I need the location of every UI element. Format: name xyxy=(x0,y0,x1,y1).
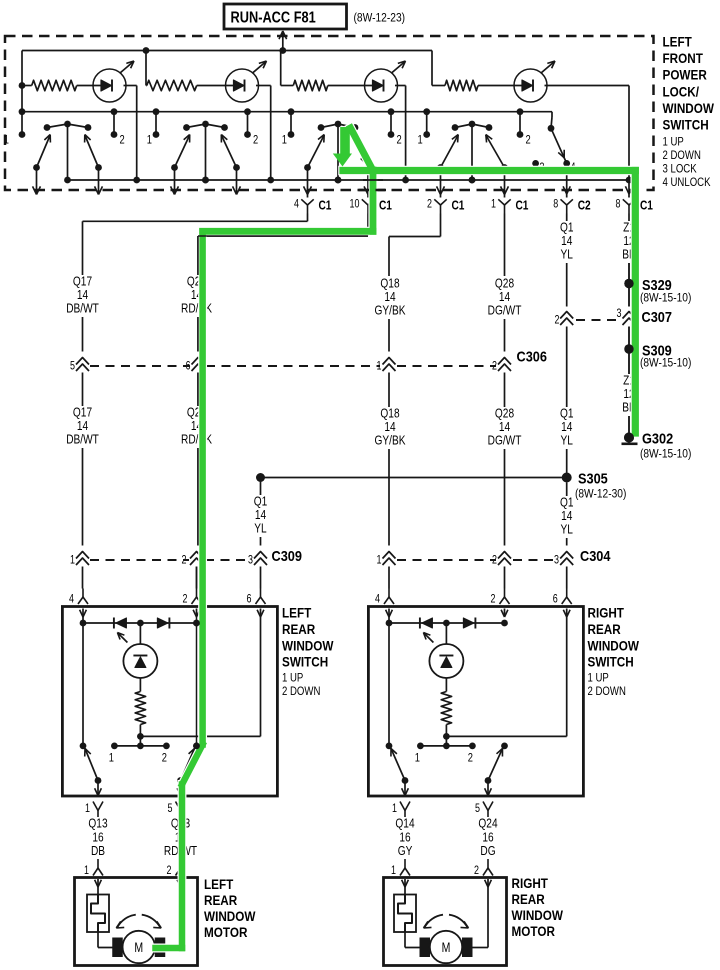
left motor M xyxy=(123,931,155,963)
svg-text:S305: S305 xyxy=(578,469,608,486)
connector C309 pin 3 xyxy=(248,552,267,567)
wire from F81 fuse with up arrow xyxy=(279,31,287,51)
switch unit 2 pin 2 stub xyxy=(244,108,251,138)
svg-text:1 UP: 1 UP xyxy=(663,136,684,149)
wire Q17 from C1 pin 4 xyxy=(83,214,308,276)
feed bus wire lower xyxy=(22,111,552,113)
svg-text:1: 1 xyxy=(491,199,496,211)
left switch lamp return wire xyxy=(140,617,260,736)
connector C1 pin 2 xyxy=(427,198,465,213)
svg-text:1: 1 xyxy=(109,751,114,764)
left rear window switch box xyxy=(62,607,277,797)
connector pin 5 and wire Q23 xyxy=(164,802,197,859)
connector C2 pin 8 xyxy=(553,198,591,213)
connector C309 pin 2 xyxy=(182,552,203,567)
svg-text:DG/WT: DG/WT xyxy=(488,434,522,448)
connector C304 pin 2 xyxy=(492,552,511,567)
svg-text:Q17: Q17 xyxy=(73,275,92,289)
left switch pin 2 xyxy=(183,589,202,618)
svg-text:(8W-15-10): (8W-15-10) xyxy=(640,357,692,370)
svg-text:Q18: Q18 xyxy=(380,407,399,421)
right circuit breaker xyxy=(394,887,416,932)
wire Q28 from C1 pin 1 xyxy=(504,214,506,277)
svg-text:WINDOW: WINDOW xyxy=(204,908,256,924)
wire Q1 below C307 xyxy=(566,327,568,408)
wire lamp LED4 cathode xyxy=(545,86,630,181)
wire Q18 to C304 xyxy=(388,449,390,546)
rocker switch 3 common bar xyxy=(318,121,359,131)
svg-text:2: 2 xyxy=(120,133,125,146)
left diode left xyxy=(114,618,127,629)
svg-text:14: 14 xyxy=(561,509,573,523)
switch unit 2 right output wire xyxy=(233,168,241,195)
svg-text:LEFT: LEFT xyxy=(204,876,233,892)
svg-text:6: 6 xyxy=(247,594,252,606)
wire Q27 below C306 xyxy=(197,373,199,407)
left switch contact bar xyxy=(109,736,170,764)
svg-text:SWITCH: SWITCH xyxy=(282,654,328,670)
wire Q1 right branch label xyxy=(560,483,574,538)
svg-text:REAR: REAR xyxy=(588,621,621,637)
green highlighted circuit path xyxy=(156,128,636,948)
left switch right arm xyxy=(177,749,194,784)
svg-text:SWITCH: SWITCH xyxy=(588,654,634,670)
left motor pin 2 xyxy=(167,859,186,887)
svg-text:1: 1 xyxy=(415,751,420,764)
svg-text:2: 2 xyxy=(474,865,479,877)
svg-text:YL: YL xyxy=(561,523,574,537)
right switch contact bar xyxy=(415,736,476,764)
feed bus wire top xyxy=(22,50,432,52)
svg-text:C1: C1 xyxy=(516,198,529,212)
svg-text:1: 1 xyxy=(377,361,382,373)
right motor title xyxy=(512,875,564,939)
svg-text:4 UNLOCK: 4 UNLOCK xyxy=(663,176,712,189)
right diode right xyxy=(463,618,475,629)
svg-text:REAR: REAR xyxy=(512,891,545,907)
connector C307 dashed line xyxy=(576,308,672,325)
svg-text:1: 1 xyxy=(4,133,9,146)
svg-text:5: 5 xyxy=(475,803,480,815)
svg-text:14: 14 xyxy=(384,290,396,304)
connector C307 pin 3 xyxy=(617,308,636,325)
svg-text:2: 2 xyxy=(555,315,560,327)
rocker switch 2 right contact arm xyxy=(221,135,240,171)
rocker switch 2 common bar xyxy=(183,121,228,131)
svg-text:1 UP: 1 UP xyxy=(282,672,303,685)
right switch lamp resistor xyxy=(441,678,451,740)
svg-text:Q28: Q28 xyxy=(495,277,514,291)
switch unit 1 left output wire xyxy=(33,168,41,195)
switch unit 3 pin 1 label xyxy=(282,133,287,146)
wire resistor R2 to lamp xyxy=(197,85,242,87)
connector C306 dashed line xyxy=(90,347,547,366)
right motor feed wire right xyxy=(473,887,489,948)
svg-text:C309: C309 xyxy=(272,547,303,564)
wire lamp LED3 cathode xyxy=(395,86,406,181)
svg-text:14: 14 xyxy=(384,420,396,434)
svg-text:14: 14 xyxy=(561,234,573,248)
wire label Q1 upper xyxy=(560,221,574,262)
wire Q1 to S305 xyxy=(566,449,568,478)
switch unit 3 right output wire xyxy=(364,168,372,198)
svg-text:RUN-ACC F81: RUN-ACC F81 xyxy=(231,9,316,27)
svg-text:14: 14 xyxy=(499,290,511,304)
lamp return output wire xyxy=(625,180,632,198)
lock/unlock switch common xyxy=(548,112,555,132)
connector C1 pin 4 xyxy=(294,198,332,213)
svg-text:2: 2 xyxy=(491,594,496,606)
left motor title xyxy=(204,876,256,940)
svg-text:Q13: Q13 xyxy=(88,816,107,830)
lock contact 3 xyxy=(532,160,545,174)
svg-text:1: 1 xyxy=(417,133,422,146)
right switch lamp return wire xyxy=(446,617,566,736)
wire Q28 to C304 xyxy=(504,449,506,546)
svg-text:C1: C1 xyxy=(452,198,465,212)
switch unit 3 pin 1 stub xyxy=(288,108,295,138)
wire fragments beside highlight xyxy=(193,180,634,749)
wire feed to resistor R2 xyxy=(145,51,148,86)
svg-text:POWER: POWER xyxy=(663,67,707,83)
wire label Q17 upper xyxy=(66,275,99,316)
wire feed to resistor R3 xyxy=(281,51,294,86)
switch unit 4 pin 1 stub xyxy=(423,108,430,138)
svg-text:Q1: Q1 xyxy=(560,407,574,421)
wire Q17 to C306 xyxy=(82,317,84,352)
svg-text:C2: C2 xyxy=(578,198,591,212)
svg-text:8: 8 xyxy=(616,199,621,211)
connector pin 1 and wire Q13 xyxy=(85,802,108,859)
right switch output 1 wire xyxy=(402,781,409,797)
switch unit 4 pin 1 label xyxy=(417,133,422,146)
svg-text:3: 3 xyxy=(617,308,622,320)
left switch lamp xyxy=(117,623,157,678)
right switch internal feed wire xyxy=(386,617,393,749)
right switch right arm xyxy=(485,749,503,784)
connector C307 pin 2 xyxy=(555,312,574,327)
unlock output wire xyxy=(563,163,570,197)
wire feed to resistor R4 xyxy=(432,51,445,86)
green direction arrow xyxy=(333,127,352,167)
switch unit 1 pin 1 stub xyxy=(19,112,26,138)
svg-text:8: 8 xyxy=(553,199,558,211)
indicator lamp LED4 xyxy=(514,61,555,102)
junction node at F81 tap xyxy=(279,47,286,54)
connector pin 1 and wire Q14 xyxy=(392,802,415,859)
svg-text:WINDOW: WINDOW xyxy=(282,637,334,653)
svg-text:Q1: Q1 xyxy=(560,221,574,235)
left rotation arrows xyxy=(116,915,161,928)
wire Q1 left branch to switch pin 6 xyxy=(260,567,262,589)
svg-text:LEFT: LEFT xyxy=(282,605,311,621)
wire resistor R4 to lamp xyxy=(478,85,530,87)
wire label Q28 upper xyxy=(488,277,522,318)
svg-text:M: M xyxy=(134,940,143,956)
rocker switch 3 common wire xyxy=(335,124,342,183)
left motor feed wire right xyxy=(165,887,180,948)
switch unit 4 pin 2 stub xyxy=(517,108,524,138)
svg-text:GY/BK: GY/BK xyxy=(375,434,406,448)
right rear window switch title xyxy=(588,605,640,699)
svg-text:S329: S329 xyxy=(642,276,672,293)
svg-text:DG/WT: DG/WT xyxy=(488,304,522,318)
switch unit 2 left output wire xyxy=(171,168,179,195)
svg-text:RIGHT: RIGHT xyxy=(588,605,625,621)
wire Q18 to switch pin 4 xyxy=(388,567,390,589)
wire Q18 below C306 xyxy=(388,373,390,408)
switch unit 3 pin 2 stub xyxy=(388,108,395,138)
indicator lamp LED1 xyxy=(93,61,134,102)
wire left feed vertical xyxy=(19,51,26,116)
connector C309 dashed line xyxy=(90,547,302,564)
svg-text:5: 5 xyxy=(168,803,173,815)
wire Q1 left branch label xyxy=(254,478,268,537)
svg-text:3: 3 xyxy=(248,555,253,567)
right motor feed wire left xyxy=(405,932,430,948)
svg-text:2: 2 xyxy=(468,751,473,764)
switch unit 4 left output wire xyxy=(437,168,445,198)
svg-text:DB/WT: DB/WT xyxy=(66,302,99,316)
wire resistor R1 to lamp xyxy=(77,85,109,87)
wire Q17 to C309 xyxy=(82,448,84,546)
splice S329 xyxy=(624,276,691,305)
svg-text:LOCK/: LOCK/ xyxy=(663,83,700,99)
connector C1 pin 10 xyxy=(350,198,393,213)
wire Q1 to C307 xyxy=(566,263,568,307)
svg-text:3 LOCK: 3 LOCK xyxy=(663,163,698,176)
connector C306 pin 6 xyxy=(186,358,205,373)
wire label Q27 lower xyxy=(181,406,212,447)
wire label Z1 lower xyxy=(622,374,636,415)
rocker switch 1 common bar xyxy=(44,121,92,131)
wire Q17 to switch pin 4 xyxy=(82,567,84,589)
left switch output 5 wire xyxy=(177,781,184,797)
rocker switch 1 common wire xyxy=(64,124,71,183)
wire Q28 below C306 xyxy=(504,373,506,408)
wire label Q28 lower xyxy=(488,407,522,448)
rocker switch 4 common bar xyxy=(452,121,493,131)
svg-text:Q1: Q1 xyxy=(254,495,268,509)
wire resistor R3 to lamp xyxy=(328,85,381,87)
svg-text:1: 1 xyxy=(70,555,75,567)
rocker switch 2 left contact arm xyxy=(171,135,190,171)
right switch left arm xyxy=(391,749,408,784)
svg-text:2: 2 xyxy=(492,361,497,373)
svg-text:2: 2 xyxy=(162,751,167,764)
green highlight halo xyxy=(156,128,636,948)
svg-text:C1: C1 xyxy=(379,198,392,212)
left front switch dashed enclosure xyxy=(5,36,654,190)
wire S305 branch horizontal xyxy=(256,473,567,482)
right motor pin 1 xyxy=(391,859,410,887)
left switch internal feed wire xyxy=(80,617,87,749)
rocker switch 3 left contact arm xyxy=(304,135,324,171)
svg-text:(8W-15-10): (8W-15-10) xyxy=(640,448,692,461)
rocker switch 3 right contact arm (closed) xyxy=(352,129,371,171)
junction node res2 feed xyxy=(143,47,150,54)
wire Z1 to ground xyxy=(628,416,630,433)
wire label Q17 lower xyxy=(66,406,99,447)
svg-text:YL: YL xyxy=(254,522,267,536)
left switch arm pivot right xyxy=(193,743,200,750)
connector C306 pin 1 xyxy=(377,358,396,373)
wire Q18 from C1 pin 2 xyxy=(389,214,441,277)
ground G302 xyxy=(622,429,692,460)
resistor R3 xyxy=(293,80,328,90)
svg-text:2 DOWN: 2 DOWN xyxy=(663,149,701,162)
wire label Q1 middle xyxy=(560,407,574,448)
svg-text:DB/WT: DB/WT xyxy=(66,433,99,447)
connector C304 pin 1 xyxy=(377,552,396,567)
svg-text:YL: YL xyxy=(561,434,574,448)
svg-text:C306: C306 xyxy=(517,347,548,364)
right switch internal top wire xyxy=(389,620,508,627)
left circuit breaker xyxy=(87,887,109,932)
wire Q1 right branch to C304 xyxy=(566,538,568,546)
lock/unlock switch arm xyxy=(551,128,570,167)
svg-text:2 DOWN: 2 DOWN xyxy=(282,685,320,698)
switch unit 1 pin 1 label xyxy=(4,133,9,146)
switch unit 1 right output wire xyxy=(95,168,103,195)
connector C306 pin 5 xyxy=(70,358,89,373)
svg-text:DB: DB xyxy=(91,844,105,858)
svg-text:16: 16 xyxy=(92,830,103,844)
svg-text:3: 3 xyxy=(554,555,559,567)
splice S305 xyxy=(562,469,627,500)
svg-text:RD/BK: RD/BK xyxy=(181,302,212,316)
wire Q1 right branch to switch pin 6 xyxy=(566,567,568,589)
wire Q1 from C2 pin 8 xyxy=(566,214,568,222)
right motor box xyxy=(384,878,507,966)
svg-text:DG: DG xyxy=(480,844,495,858)
svg-text:2: 2 xyxy=(427,199,432,211)
svg-text:1: 1 xyxy=(85,803,90,815)
svg-text:C307: C307 xyxy=(642,308,673,325)
svg-text:WINDOW: WINDOW xyxy=(512,907,564,923)
svg-text:(8W-15-10): (8W-15-10) xyxy=(640,292,692,305)
left motor brushes xyxy=(112,938,165,958)
switch unit 4 right output wire xyxy=(501,168,509,198)
svg-text:C1: C1 xyxy=(640,198,653,212)
svg-text:LEFT: LEFT xyxy=(663,34,692,50)
svg-text:SWITCH: SWITCH xyxy=(663,117,709,133)
connector C304 dashed line xyxy=(397,547,611,564)
right motor M xyxy=(430,931,462,963)
svg-text:M: M xyxy=(442,940,451,956)
left switch left arm xyxy=(85,749,102,784)
svg-text:2: 2 xyxy=(167,865,172,877)
svg-text:4: 4 xyxy=(69,594,74,606)
svg-text:G302: G302 xyxy=(642,429,673,446)
resistor R2 xyxy=(147,80,197,90)
right motor pin 2 xyxy=(474,859,493,887)
svg-text:REAR: REAR xyxy=(282,621,315,637)
wire Z1 from C1 pin 8 xyxy=(628,214,630,222)
svg-text:Q17: Q17 xyxy=(73,406,92,420)
connector C1 pin 1 xyxy=(491,198,529,213)
svg-text:2: 2 xyxy=(397,133,402,146)
left motor pin 1 xyxy=(84,859,103,887)
wire label Q18 upper xyxy=(375,277,406,318)
svg-text:(8W-12-23): (8W-12-23) xyxy=(354,12,406,25)
left switch lamp resistor xyxy=(135,678,145,740)
lamp return bus wire xyxy=(68,177,633,184)
svg-text:Q1: Q1 xyxy=(560,496,574,510)
switch unit 2 pin 1 stub xyxy=(153,108,160,138)
svg-text:C1: C1 xyxy=(319,198,332,212)
connector pin 5 and wire Q24 xyxy=(475,802,498,859)
svg-text:16: 16 xyxy=(482,830,493,844)
svg-text:16: 16 xyxy=(399,830,410,844)
wire Q27 to C306 xyxy=(197,317,199,352)
svg-text:2: 2 xyxy=(183,594,188,606)
resistor R1 xyxy=(32,80,77,90)
switch unit 3 pin 2 label xyxy=(397,133,402,146)
svg-text:RD/BK: RD/BK xyxy=(181,433,212,447)
right switch pin 4 xyxy=(375,589,394,618)
svg-text:10: 10 xyxy=(350,199,360,211)
svg-text:GY/BK: GY/BK xyxy=(375,304,406,318)
svg-text:1: 1 xyxy=(84,865,89,877)
connector C304 pin 3 xyxy=(554,552,573,567)
right switch pin 6 xyxy=(553,589,572,618)
connector C1 pin 8 xyxy=(616,198,654,213)
right switch output 5 wire xyxy=(485,781,492,797)
right switch arm pivot right xyxy=(501,743,508,750)
svg-text:WINDOW: WINDOW xyxy=(663,100,715,116)
right motor brushes xyxy=(420,938,473,958)
right switch pin 2 xyxy=(491,589,510,618)
wire Q17 below C306 xyxy=(82,373,84,407)
svg-text:1: 1 xyxy=(377,555,382,567)
rocker switch 4 common wire xyxy=(469,124,476,183)
wire label Q18 lower xyxy=(375,407,406,448)
right rear window switch box xyxy=(368,607,583,797)
svg-text:1: 1 xyxy=(392,803,397,815)
wire Q27 to C309 xyxy=(197,448,199,546)
wire Q28 to switch pin 2 xyxy=(504,567,506,589)
switch unit 1 pin 2 stub xyxy=(111,108,118,138)
svg-text:MOTOR: MOTOR xyxy=(512,923,555,939)
svg-text:(8W-12-30): (8W-12-30) xyxy=(575,488,627,501)
fuse box RUN-ACC F81 xyxy=(224,4,405,29)
rocker switch 1 left contact arm xyxy=(33,135,50,171)
svg-text:WINDOW: WINDOW xyxy=(588,637,640,653)
wire lamp LED2 cathode xyxy=(256,86,271,181)
svg-text:MOTOR: MOTOR xyxy=(204,924,247,940)
wire Q18 to C306 xyxy=(388,319,390,352)
svg-text:Q18: Q18 xyxy=(380,277,399,291)
svg-text:2: 2 xyxy=(253,133,258,146)
left diode right xyxy=(157,618,169,629)
wire Z1 below C307 xyxy=(628,327,630,375)
rocker switch 2 common wire xyxy=(202,124,209,183)
right rotation arrows xyxy=(424,915,469,928)
wire Q27 to switch pin 2 xyxy=(196,567,198,589)
svg-text:14: 14 xyxy=(499,420,511,434)
rocker switch 4 right contact arm xyxy=(486,135,508,171)
svg-text:2: 2 xyxy=(526,133,531,146)
svg-text:GY: GY xyxy=(398,844,413,858)
svg-text:14: 14 xyxy=(561,420,573,434)
svg-text:Q28: Q28 xyxy=(495,407,514,421)
svg-text:Q24: Q24 xyxy=(478,816,498,830)
resistor R4 xyxy=(445,80,478,90)
left front power lock/window switch title xyxy=(663,34,715,190)
wire Q1 left branch to C309 xyxy=(260,537,262,546)
connector C306 pin 2 xyxy=(492,358,511,373)
